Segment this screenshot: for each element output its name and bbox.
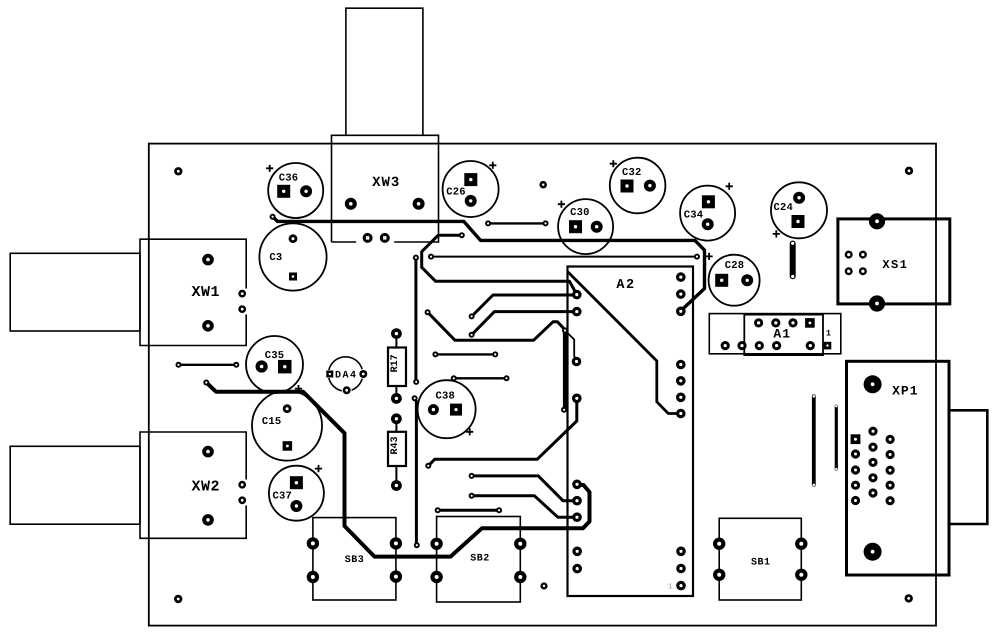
node pads s5 (176, 362, 240, 368)
connector XW1 pad 2 (202, 320, 214, 332)
node pads V2 (412, 395, 420, 548)
node pad net7 start (469, 473, 475, 479)
resistor R43 body (388, 419, 406, 486)
capacitor C24 (771, 182, 827, 238)
wire s5 (179, 364, 237, 366)
node pads s4 (485, 220, 548, 226)
svg-text:SB3: SB3 (345, 555, 365, 566)
svg-text:C37: C37 (273, 490, 293, 502)
capacitor C26 (443, 161, 499, 217)
node pads s1 (432, 351, 498, 357)
connector XW2 pad 2 (202, 514, 214, 526)
connector XP1 pad B (864, 543, 882, 561)
DA4 pad 2 (358, 369, 368, 379)
connector XW2 body (10, 432, 246, 538)
button SB2 body (437, 517, 521, 603)
svg-text:C38: C38 (435, 391, 455, 403)
button SB1 body (719, 518, 801, 600)
svg-text:XS1: XS1 (882, 258, 908, 272)
capacitor C35 (246, 336, 303, 393)
wire s2 (454, 377, 507, 379)
DA4 pad 1 square (326, 370, 334, 378)
wire s1 (435, 353, 495, 355)
svg-text:DA4: DA4 (335, 370, 358, 381)
svg-text:C15: C15 (262, 416, 282, 428)
connector XW1 pad 3 (238, 290, 246, 298)
svg-text:C3: C3 (269, 252, 282, 264)
connector XW3 body (332, 8, 439, 242)
svg-text:1: 1 (826, 328, 831, 338)
resistor R43 pad 2 (391, 480, 402, 491)
svg-text:XW1: XW1 (192, 284, 221, 301)
svg-text:XW3: XW3 (372, 175, 400, 191)
resistor R17 pad 2 (391, 393, 402, 404)
transistor DA4 body (328, 357, 362, 391)
connector XW1 body (10, 239, 246, 345)
wire bar near C24 (791, 242, 794, 278)
capacitor C3 (259, 223, 326, 290)
mounting hole bottom-left (174, 595, 182, 603)
mounting hole bottom-right (905, 594, 913, 602)
svg-text:SB1: SB1 (751, 557, 771, 568)
svg-text:C36: C36 (279, 173, 299, 185)
node pad net6 start (425, 463, 431, 469)
svg-text:R43: R43 (390, 436, 401, 454)
button SB3 pads (307, 537, 402, 583)
connector XW2 pad 3 (238, 481, 246, 489)
connector XS1 pad 2 (869, 295, 885, 311)
A2 right column pads (676, 272, 686, 590)
capacitor C36 (266, 163, 323, 218)
svg-text:C28: C28 (725, 260, 745, 272)
wire V1 (414, 258, 417, 382)
connector XW3 pad 3 (363, 233, 373, 243)
capacitor C15 (252, 391, 322, 461)
node pad net1 start (270, 214, 276, 220)
connector XS1 pad 6 (859, 267, 867, 275)
wire net8 (472, 496, 577, 518)
svg-text:XW2: XW2 (192, 478, 221, 495)
svg-text:1: 1 (668, 583, 673, 592)
capacitor C37 (269, 465, 324, 521)
wire net3 (472, 295, 577, 316)
connector XW1 pad 1 (202, 254, 214, 266)
wire net6 (428, 398, 577, 466)
DA4 pad 3 (342, 385, 352, 395)
node pads net9 (428, 254, 700, 260)
mounting hole top-right (905, 167, 913, 175)
A2 polarity diagonal trace (569, 273, 681, 414)
wire bar1 near XP1 (813, 395, 816, 486)
wire ground snake from pad to A2 (206, 383, 589, 557)
connector XS1 pad 5 (845, 267, 853, 275)
svg-text:C30: C30 (570, 207, 590, 219)
wire net5 (428, 312, 565, 340)
capacitor C34 (680, 183, 735, 241)
wire net1 from C36 to A2 (273, 217, 705, 312)
IC A1 body (709, 314, 841, 356)
svg-text:A1: A1 (773, 326, 791, 341)
resistor R17 pad 1 (391, 328, 402, 339)
button SB3 body (313, 518, 396, 600)
connector XW1 pad 4 (238, 305, 246, 313)
capacitor C32 (610, 158, 666, 214)
connector XW2 pad 4 (238, 496, 246, 504)
svg-text:C35: C35 (265, 350, 285, 362)
wire net5 bar (563, 331, 567, 410)
connector XP1 pin 1 square (851, 434, 861, 444)
svg-text:A2: A2 (616, 278, 635, 293)
svg-text:C32: C32 (622, 167, 642, 179)
resistor R43 pad 1 (391, 413, 402, 424)
wire net5 link (566, 332, 577, 362)
svg-text:C34: C34 (684, 210, 704, 222)
connector XS1 pad 1 (869, 213, 885, 229)
capacitor C28 (706, 253, 760, 306)
wire net7 (472, 476, 577, 501)
resistor R17 body (388, 334, 406, 399)
node pad net3 start (469, 313, 475, 319)
connector XP1 body (847, 361, 988, 575)
svg-text:XP1: XP1 (892, 383, 918, 398)
via pad near C30 (539, 181, 547, 189)
board outline (149, 144, 936, 626)
node pads s3 (435, 507, 502, 513)
mounting hole top-left (174, 167, 182, 175)
IC A1 pads bottom row (721, 341, 832, 350)
connector XW3 pad 1 (345, 198, 357, 210)
svg-text:R17: R17 (390, 354, 401, 372)
wire net9 long (431, 256, 697, 258)
connector XW3 pad 2 (413, 198, 425, 210)
wire s4 (488, 222, 545, 224)
IC A1 pads top row (754, 318, 815, 328)
node pads V1 (413, 255, 419, 385)
node pad snake start (203, 380, 209, 386)
node pad net2 start (459, 232, 465, 238)
node pads net5 bar (561, 328, 568, 413)
connector XP1 pad A (864, 375, 882, 393)
connector XP1 pin grid (851, 427, 895, 506)
wire net2 to A2 pin row (422, 235, 577, 294)
svg-text:C24: C24 (774, 202, 794, 214)
wire bar2 near XP1 (835, 405, 837, 470)
A2 left column pads (572, 290, 582, 574)
button SB1 pads (713, 538, 808, 582)
connector XS1 pad 3 (845, 251, 853, 259)
connector XW2 pad 1 (202, 446, 214, 458)
connector XS1 pad 4 (859, 251, 867, 259)
wire net4 (472, 312, 577, 335)
wire s3 (438, 509, 499, 512)
IC A2 body (568, 267, 694, 597)
node pad net8 start (469, 493, 475, 499)
wire V2 (415, 398, 417, 545)
svg-text:SB2: SB2 (470, 553, 490, 564)
svg-text:C26: C26 (446, 186, 466, 198)
capacitor C30 (558, 199, 613, 254)
node pad net5 start (425, 309, 431, 315)
connector XW3 pad 4 (380, 233, 390, 243)
connector XS1 body (838, 219, 950, 304)
node pads s2 (451, 375, 510, 381)
capacitor C38 (418, 380, 476, 438)
via pad near SB2 (540, 582, 547, 589)
node pad net4 start (469, 332, 475, 338)
button SB2 pads (430, 538, 526, 584)
